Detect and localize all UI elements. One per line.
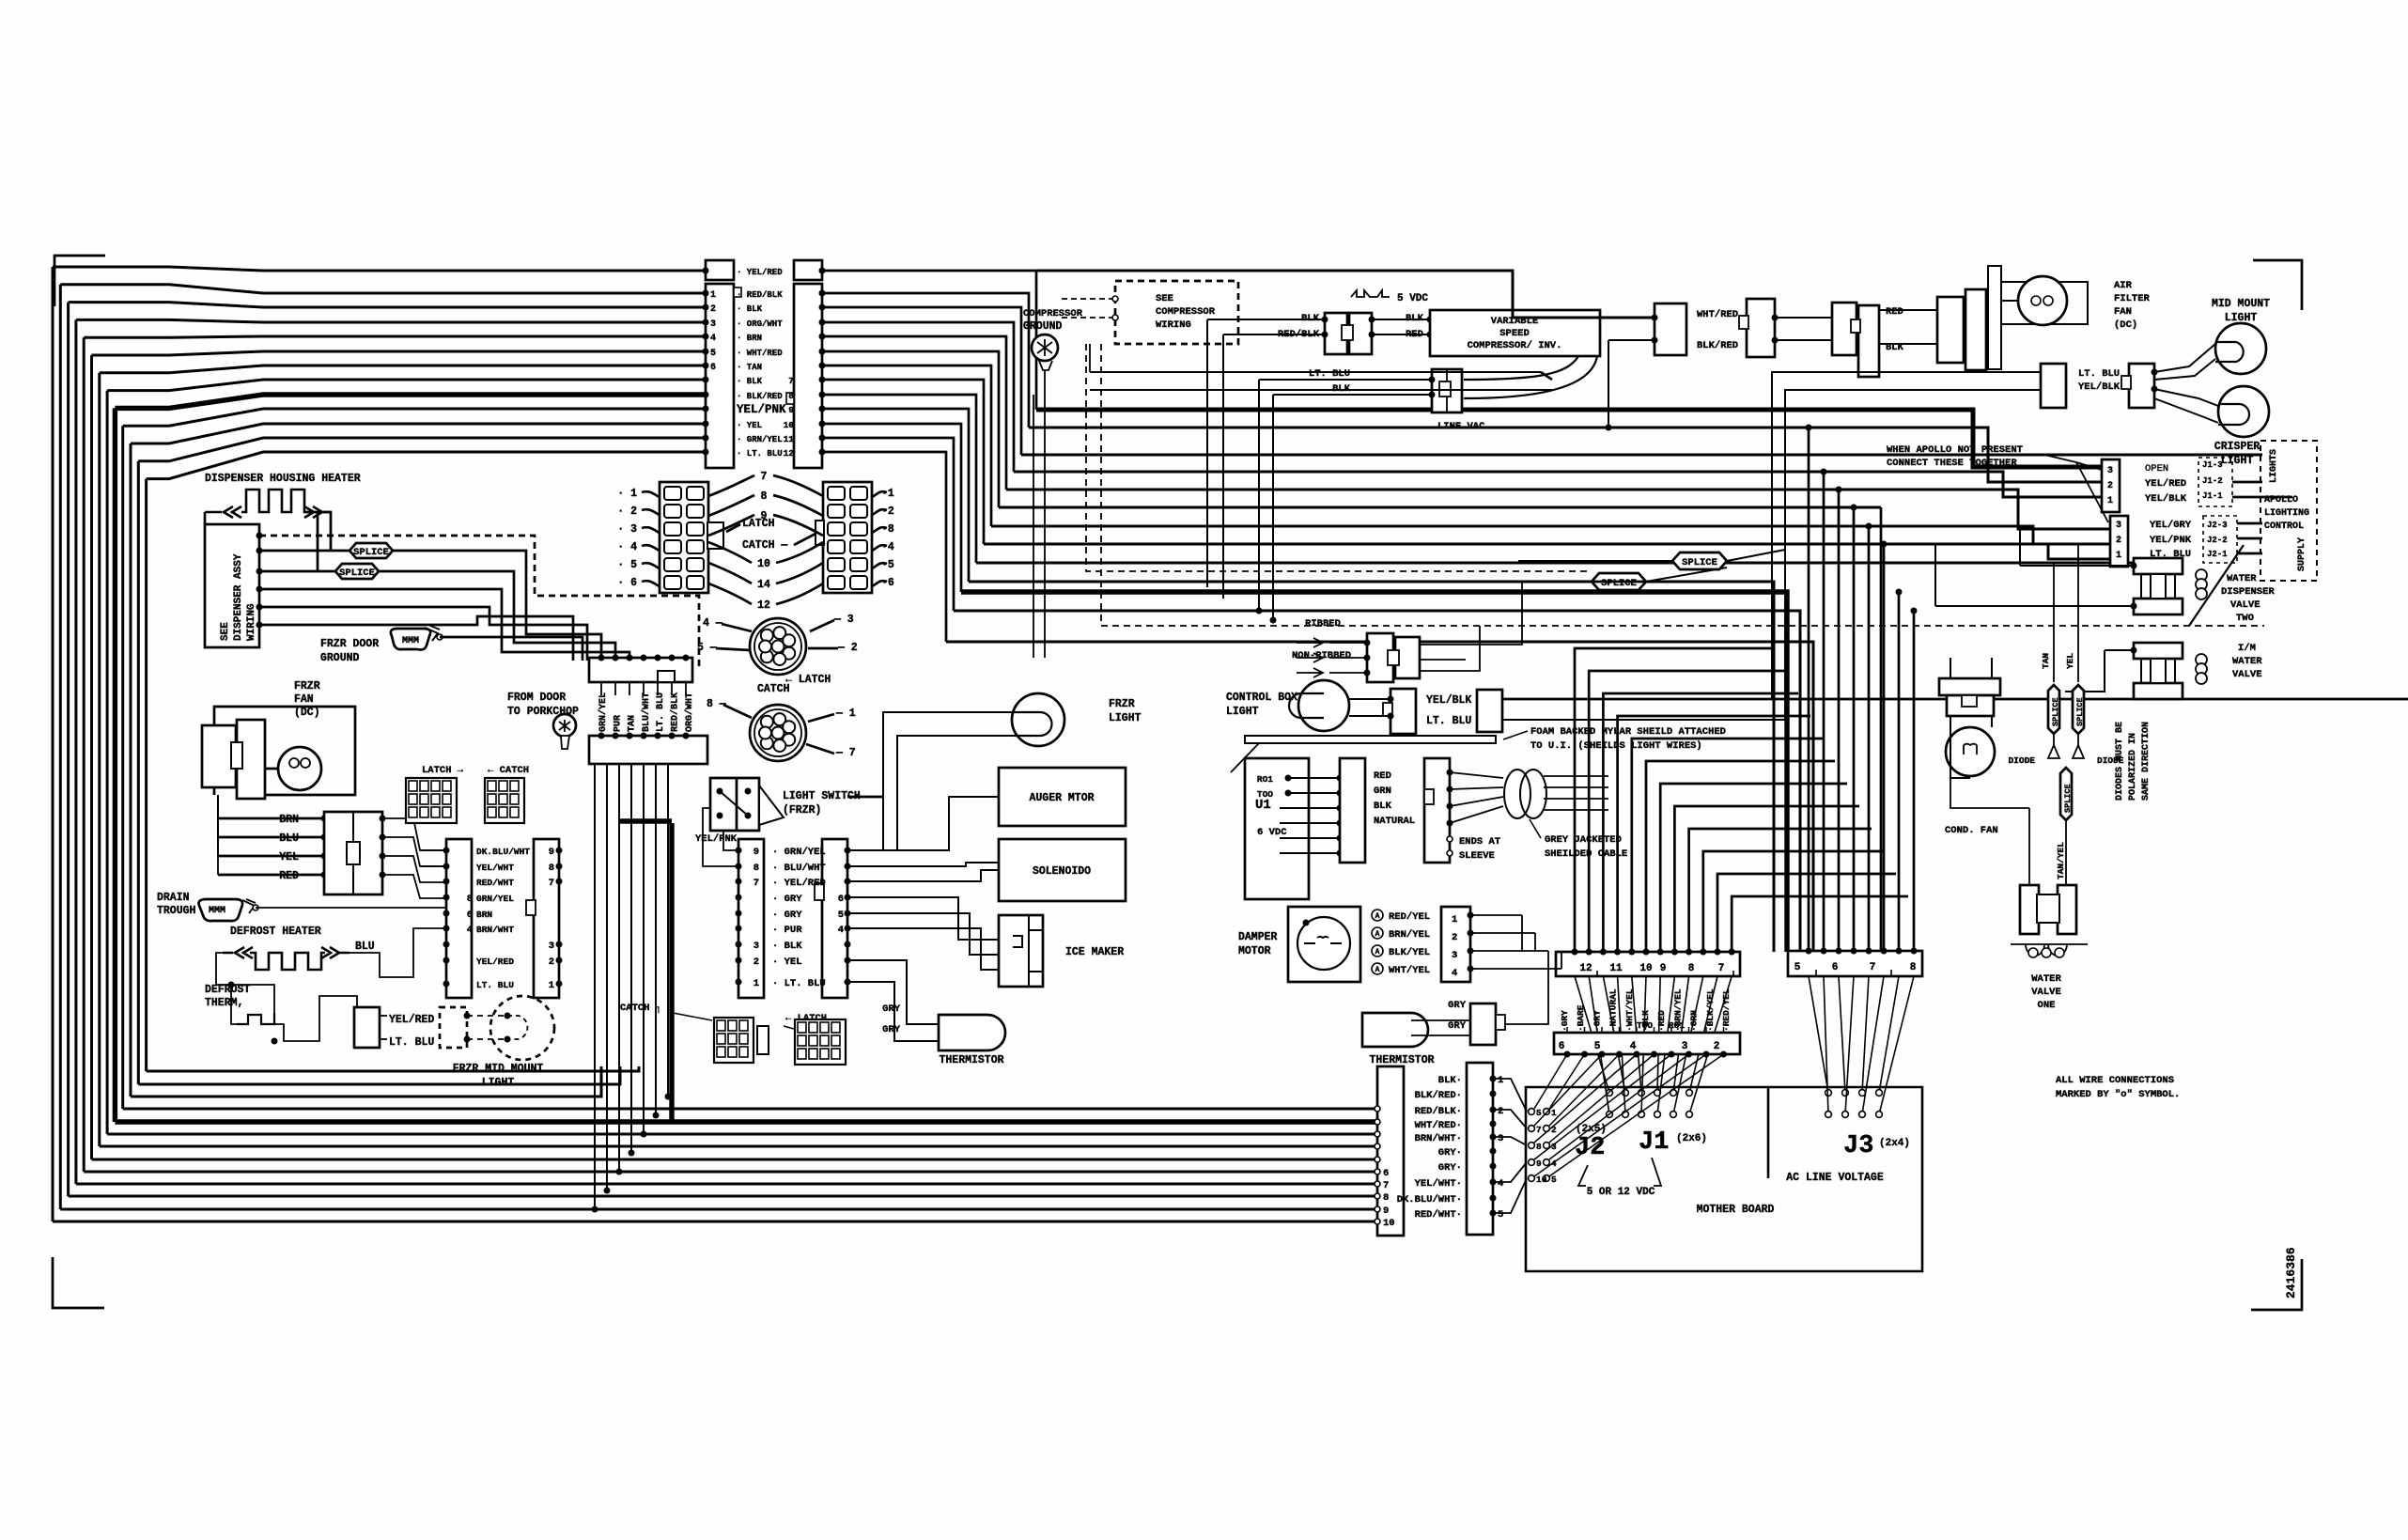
svg-text:GREY JACKETED: GREY JACKETED xyxy=(1545,834,1622,846)
svg-text:2: 2 xyxy=(549,957,554,968)
svg-text:TOO: TOO xyxy=(1637,1020,1653,1031)
foam backed mylar shield bar xyxy=(1245,736,1496,743)
wire branch to J3 pin 6 xyxy=(1883,544,1886,951)
svg-text:·GRN: ·GRN xyxy=(1689,1010,1700,1032)
svg-text:4 —: 4 — xyxy=(703,617,722,630)
connector refrigerator-door header right top box xyxy=(794,260,822,280)
svg-text:·NATURAL: ·NATURAL xyxy=(1608,988,1619,1032)
svg-text:GRY·: GRY· xyxy=(1438,1147,1462,1159)
svg-text:5 OR 12 VDC: 5 OR 12 VDC xyxy=(1587,1187,1655,1198)
svg-text:· YEL: · YEL xyxy=(772,957,802,968)
wire bus row 12 left vertical xyxy=(145,479,148,1071)
svg-text:· GRY: · GRY xyxy=(772,910,802,921)
svg-text:ENDS AT: ENDS AT xyxy=(1459,836,1500,848)
connector freezer fan feed 4-pin xyxy=(324,812,382,894)
svg-text:YEL/PNK: YEL/PNK xyxy=(695,833,738,845)
box APOLLO LIGHTING CONTROL dashed xyxy=(2260,441,2317,581)
svg-text:· 2: · 2 xyxy=(617,506,637,518)
wire fan feed 0 xyxy=(382,818,446,850)
connector bottom bus 10-pin strip xyxy=(1377,1066,1404,1236)
svg-text:RIBBED: RIBBED xyxy=(1305,618,1341,630)
svg-text:· BLK: · BLK xyxy=(772,941,802,952)
connector chain 1 xyxy=(1655,303,1686,355)
connector freezer strip A xyxy=(446,839,472,998)
wire bus row 3 bottom xyxy=(76,1183,1379,1186)
svg-text:YEL/BLK: YEL/BLK xyxy=(1426,694,1471,707)
wire to crisper light 2 xyxy=(2154,398,2218,423)
svg-text:· 1: · 1 xyxy=(617,488,637,500)
svg-text:J1-1: J1-1 xyxy=(2202,491,2223,501)
svg-text:COND. FAN: COND. FAN xyxy=(1945,825,1998,836)
svg-text:·2: ·2 xyxy=(881,506,894,518)
svg-text:10: 10 xyxy=(1383,1218,1395,1229)
wire bus row 0 bottom xyxy=(53,1221,1379,1223)
svg-text:5: 5 xyxy=(710,349,716,359)
svg-text:GRY: GRY xyxy=(882,1003,901,1015)
svg-text:4: 4 xyxy=(1498,1178,1503,1190)
wire dashed to compressor box 1 xyxy=(1062,298,1112,300)
wire heater to splice xyxy=(323,512,331,551)
connector compressor feed B xyxy=(1349,313,1372,354)
wire central bus 6 xyxy=(991,526,2110,544)
svg-text:·4: ·4 xyxy=(881,541,894,553)
svg-text:7: 7 xyxy=(761,471,768,483)
wire BLK to line vac xyxy=(1273,394,1432,396)
svg-text:— 2: — 2 xyxy=(837,642,858,654)
svg-text:BLU: BLU xyxy=(279,832,299,845)
connector chain 5 xyxy=(1937,297,1964,363)
wire staircase row 3 xyxy=(822,322,1014,472)
wire damper 1 xyxy=(1470,914,1522,916)
svg-text:GRN/YEL: GRN/YEL xyxy=(476,894,514,904)
svg-text:FOAM BACKED MYLAR SHEILD ATTAC: FOAM BACKED MYLAR SHEILD ATTACHED xyxy=(1530,726,1726,738)
svg-text:GRN: GRN xyxy=(1374,786,1391,797)
svg-text:· PUR: · PUR xyxy=(772,925,802,936)
svg-text:3: 3 xyxy=(1498,1133,1503,1144)
wire bus row 11 left vertical xyxy=(137,461,140,1084)
lamp crisper light xyxy=(2218,386,2269,437)
latch tab on left block xyxy=(707,522,723,549)
I/M water valve xyxy=(2134,643,2183,659)
svg-text:5: 5 xyxy=(1594,1041,1601,1052)
wire cond fan loop l xyxy=(1950,716,1970,778)
wire to mid mount light 1 xyxy=(2154,344,2215,372)
svg-text:3: 3 xyxy=(2107,466,2113,476)
wire frzr light feed xyxy=(883,712,1014,850)
label A RED/YEL xyxy=(1372,910,1383,921)
box SOLENOIDO xyxy=(999,839,1126,901)
svg-text:8: 8 xyxy=(788,391,794,401)
wire to wdv2 bottom xyxy=(1935,605,2134,607)
splice TAN xyxy=(2048,685,2059,734)
svg-text:· TAN: · TAN xyxy=(737,363,762,372)
leader apollo 2 xyxy=(2076,462,2108,522)
wire defrost therm xyxy=(216,985,237,1024)
connector freezer-door strip lower xyxy=(589,736,707,764)
svg-text:9: 9 xyxy=(788,405,794,415)
wire U1 pin 3 xyxy=(1280,807,1340,809)
svg-text:TWO: TWO xyxy=(2236,613,2254,624)
svg-text:· GRN/YEL: · GRN/YEL xyxy=(772,847,826,858)
connector J3 strip xyxy=(1788,951,1922,976)
wire central bus 1 xyxy=(1029,428,2102,482)
svg-text:A: A xyxy=(1375,930,1380,939)
svg-text:· BLU/WHT: · BLU/WHT xyxy=(772,863,826,874)
svg-text:LT. BLU: LT. BLU xyxy=(656,692,666,732)
wire to solenoid xyxy=(847,863,999,866)
svg-text:MMM: MMM xyxy=(402,636,419,646)
svg-text:FROM DOOR: FROM DOOR xyxy=(507,692,566,704)
connector control box light xyxy=(1390,689,1416,734)
connector grid catch upper-right xyxy=(485,778,524,823)
wire into splice r1 xyxy=(1518,560,1672,562)
svg-text:11: 11 xyxy=(1609,963,1623,974)
svg-text:PUR: PUR xyxy=(613,715,623,732)
svg-text:THERM,: THERM, xyxy=(205,997,243,1009)
box SEE COMPRESSOR WIRING dashed xyxy=(1115,281,1238,344)
wire shielded cable conductor 1 xyxy=(1544,786,1608,788)
svg-text:3: 3 xyxy=(549,941,554,952)
wire to J1 pin 12 xyxy=(1575,648,1774,952)
svg-text:1: 1 xyxy=(2107,496,2113,506)
wire staircase row 6 xyxy=(822,366,991,526)
svg-text:J1-2: J1-2 xyxy=(2202,476,2223,486)
svg-text:DRAIN: DRAIN xyxy=(157,892,190,904)
svg-text:MOTHER BOARD: MOTHER BOARD xyxy=(1697,1204,1775,1216)
connector J2 strip xyxy=(1554,1033,1740,1054)
wire LT BLU riser xyxy=(1258,380,1260,611)
svg-text:6: 6 xyxy=(467,910,473,921)
wire bus row 5 top xyxy=(92,351,706,355)
wire bus row 5 left vertical xyxy=(90,355,93,1159)
svg-text:3: 3 xyxy=(753,941,759,952)
svg-text:J2-1: J2-1 xyxy=(2207,550,2228,559)
svg-text:·BLK/YEL: ·BLK/YEL xyxy=(1705,988,1716,1032)
svg-text:9: 9 xyxy=(549,847,554,858)
wire bus row 11 bottom riser xyxy=(138,1066,620,1084)
svg-text:6: 6 xyxy=(710,363,716,373)
wire to J1 pin 5 xyxy=(1674,806,1859,952)
svg-text:BLK·: BLK· xyxy=(1438,1075,1462,1086)
wire staircase row 2 xyxy=(822,307,1021,455)
svg-text:SPLICE: SPLICE xyxy=(2063,784,2073,813)
wire TAN/YEL down xyxy=(2065,820,2067,885)
wire riser freezer-door 2 xyxy=(618,764,620,1172)
wire compressor ground down xyxy=(1044,370,1046,658)
wire bus row 1 left vertical xyxy=(59,285,62,1209)
lamp FRZR LIGHT xyxy=(1012,693,1064,746)
svg-text:LATCH →: LATCH → xyxy=(422,765,464,776)
svg-text:WATER: WATER xyxy=(2232,656,2262,667)
wire bus row 1 top xyxy=(60,285,705,293)
connector LINE VAC xyxy=(1432,369,1462,412)
svg-text:TOO: TOO xyxy=(1257,789,1273,800)
wire bus row 7 bottom xyxy=(107,1133,1379,1136)
wire U1 pin 4 xyxy=(1280,822,1340,824)
wire 5-pin to J2-4 xyxy=(1493,1162,1527,1182)
svg-text:YEL/WHT·: YEL/WHT· xyxy=(1415,1178,1462,1190)
svg-text:BLU: BLU xyxy=(355,941,375,953)
wire thick riser freezer section xyxy=(669,823,674,1121)
svg-text:1: 1 xyxy=(549,980,554,991)
connector J1 strip xyxy=(1556,952,1740,976)
wire damper 2 xyxy=(1470,932,1535,934)
svg-text:1: 1 xyxy=(710,290,716,301)
svg-text:· WHT/RED: · WHT/RED xyxy=(737,349,783,358)
wire bus row 4 bottom xyxy=(84,1171,1379,1174)
svg-text:SPLICE: SPLICE xyxy=(1682,557,1717,568)
connector grid latch lower-right xyxy=(795,1019,846,1065)
svg-text:7: 7 xyxy=(1536,1125,1542,1135)
wire bus row 2 top xyxy=(69,303,705,307)
svg-text:CATCH —: CATCH — xyxy=(742,539,787,552)
svg-text:3: 3 xyxy=(1682,1041,1688,1052)
svg-text:· LT. BLU: · LT. BLU xyxy=(772,978,826,989)
ice maker connector xyxy=(999,915,1043,987)
wire fan feed 3 xyxy=(382,875,446,898)
svg-text:POLARIZED IN: POLARIZED IN xyxy=(2128,733,2138,801)
wire bus row 6 left vertical xyxy=(98,373,101,1146)
wire central bus 7 xyxy=(984,544,2110,559)
svg-text:WHT/RED·: WHT/RED· xyxy=(1415,1120,1462,1131)
wire RED/BLK to connector xyxy=(1223,334,1325,335)
connector grid catch lower-left xyxy=(714,1018,753,1063)
svg-text:1: 1 xyxy=(1452,914,1457,926)
wire staircase row 11 xyxy=(822,438,954,611)
wire to ice maker 3 xyxy=(847,928,999,970)
svg-text:I/M: I/M xyxy=(2238,643,2256,654)
wire central bus 9 xyxy=(969,582,1774,952)
svg-text:COMPRESSOR: COMPRESSOR xyxy=(1156,306,1216,318)
svg-text:DIODE: DIODE xyxy=(2008,755,2035,766)
label A BRN/YEL xyxy=(1372,927,1383,939)
wire chain RED xyxy=(1775,317,1834,319)
svg-text:BRN: BRN xyxy=(476,910,492,920)
wire dispenser row 5 xyxy=(259,616,573,661)
wire ribbed to splice xyxy=(1466,582,1522,645)
svg-text:7: 7 xyxy=(1383,1180,1389,1191)
svg-text:SAME DIRECTION: SAME DIRECTION xyxy=(2141,722,2152,801)
wire RED xyxy=(218,874,324,877)
svg-text:2: 2 xyxy=(1714,1041,1720,1052)
svg-text:12: 12 xyxy=(784,448,795,459)
svg-text:— 7: — 7 xyxy=(835,747,856,759)
connector control box light 2 xyxy=(1477,690,1502,732)
svg-text:YEL: YEL xyxy=(279,851,299,863)
svg-text:· ORG/WHT: · ORG/WHT xyxy=(737,319,783,329)
svg-text:U1: U1 xyxy=(1255,798,1271,813)
svg-text:· 4: · 4 xyxy=(617,541,637,553)
svg-text:2: 2 xyxy=(2107,481,2113,491)
svg-text:LIGHT: LIGHT xyxy=(1109,712,1142,724)
svg-text:· GRN/YEL: · GRN/YEL xyxy=(737,435,783,444)
wire riser freezer-door 1 xyxy=(606,764,608,1190)
svg-text:RED/WHT: RED/WHT xyxy=(476,878,514,888)
connector round 8-pin lower xyxy=(750,705,806,761)
wire ribbed out 0 xyxy=(1420,644,1466,646)
wire BLU xyxy=(218,836,324,839)
svg-text:← LATCH: ← LATCH xyxy=(785,674,831,686)
wire lt.blu run right xyxy=(1502,719,1785,721)
svg-text:· LT. BLU: · LT. BLU xyxy=(737,449,783,459)
svg-text:GRY·: GRY· xyxy=(1438,1162,1462,1174)
svg-text:YEL/BLK: YEL/BLK xyxy=(2145,493,2187,505)
corner mark top-left xyxy=(54,256,105,306)
svg-text:(2x4): (2x4) xyxy=(1879,1138,1910,1149)
wire to J1 pin 2 xyxy=(1717,874,1896,952)
wire 5-pin to J2-3 xyxy=(1493,1137,1527,1145)
svg-text:3: 3 xyxy=(2116,521,2121,531)
svg-text:WHEN APOLLO NOT PRESENT: WHEN APOLLO NOT PRESENT xyxy=(1887,444,2023,456)
mother board outline xyxy=(1526,1087,1922,1271)
svg-text:MID MOUNT: MID MOUNT xyxy=(2212,298,2270,310)
defrost thermostat symbol xyxy=(237,1013,274,1024)
svg-text:2: 2 xyxy=(753,957,759,968)
svg-text:YEL/PNK: YEL/PNK xyxy=(737,403,786,416)
wire to ice maker 1 xyxy=(847,897,999,940)
wire heater to splice 2 xyxy=(306,512,318,571)
svg-text:TAN: TAN xyxy=(2041,653,2051,669)
wire bus row 12 top xyxy=(147,452,705,479)
svg-text:DK.BLU/WHT·: DK.BLU/WHT· xyxy=(1397,1194,1462,1206)
wire BLK to inverter xyxy=(1372,319,1430,320)
wire inverter to line vac 1 xyxy=(1464,356,1578,380)
svg-text:LT. BLU: LT. BLU xyxy=(1426,715,1471,727)
svg-text:(2x6): (2x6) xyxy=(1676,1133,1707,1144)
svg-text:WIRING: WIRING xyxy=(1156,319,1191,331)
connector chain 2 xyxy=(1747,299,1775,357)
wire bus row 4 left vertical xyxy=(83,337,85,1172)
svg-text:· 6: · 6 xyxy=(617,577,637,589)
svg-text:VALVE: VALVE xyxy=(2232,669,2262,680)
svg-text:WHT/RED: WHT/RED xyxy=(1697,309,1738,320)
wire central bus 5 xyxy=(999,506,1881,509)
connector 12-pin block right xyxy=(823,482,872,593)
svg-text:·GRY: ·GRY xyxy=(1592,1010,1602,1032)
wire branch to J3 pin 7 xyxy=(1898,592,1901,951)
wire cable fan 1 xyxy=(1450,787,1503,789)
svg-text:GROUND: GROUND xyxy=(1023,320,1063,333)
svg-text:MMM: MMM xyxy=(209,906,225,916)
wire to mid mount light 2 xyxy=(2154,359,2215,380)
connector grid latch upper-left xyxy=(406,778,457,823)
wire light to connector 2 xyxy=(1349,715,1390,717)
connector mid strip B xyxy=(822,839,847,998)
box damper motor xyxy=(1288,907,1360,982)
wire to thermistor grey 2 xyxy=(847,982,939,1041)
connector U1 header xyxy=(1340,758,1365,863)
box SEE DISPENSER ASSY WIRING xyxy=(205,524,259,647)
svg-text:7: 7 xyxy=(549,878,554,889)
wire dashed compressor down 1 xyxy=(1086,344,1592,571)
connector freezer-door strip upper xyxy=(589,658,692,682)
svg-text:8: 8 xyxy=(1910,962,1917,973)
wire to J1 pin 4 xyxy=(1689,829,1872,952)
svg-text:5: 5 xyxy=(838,910,844,921)
svg-text:· BLK/RED: · BLK/RED xyxy=(737,392,783,401)
wire dashed dispenser to freezer connector xyxy=(259,536,699,667)
wire damper 3 xyxy=(1470,950,1548,952)
svg-text:RED/WHT·: RED/WHT· xyxy=(1415,1209,1462,1221)
ice maker inner xyxy=(1013,915,1043,987)
wire fan feed 1 xyxy=(382,837,446,866)
svg-text:GRY: GRY xyxy=(1448,1000,1467,1011)
svg-text:VALVE: VALVE xyxy=(2230,599,2260,611)
wire light to connector 1 xyxy=(1349,698,1390,700)
svg-text:← CATCH: ← CATCH xyxy=(488,765,529,776)
svg-text:COMPRESSOR/ INV.: COMPRESSOR/ INV. xyxy=(1468,340,1562,351)
wire U1 pin 5 xyxy=(1280,837,1340,839)
connector chain socket xyxy=(1988,266,2001,369)
wire therm to yel/red connector xyxy=(274,996,357,1041)
svg-text:J1: J1 xyxy=(1639,1128,1669,1157)
svg-text:BLK: BLK xyxy=(1374,801,1392,812)
svg-text:CRISPER: CRISPER xyxy=(2214,441,2260,453)
svg-text:10: 10 xyxy=(757,558,770,570)
wire bus row 8 left vertical xyxy=(113,408,117,1122)
svg-text:(DC): (DC) xyxy=(294,707,320,719)
svg-text:BRN/WHT·: BRN/WHT· xyxy=(1415,1133,1462,1144)
wire to J1 pin 9 xyxy=(1618,716,1810,952)
wire chain BLK xyxy=(1775,339,1834,341)
svg-text:GRY: GRY xyxy=(1448,1020,1467,1032)
svg-text:8: 8 xyxy=(761,490,768,503)
svg-text:SPLICE: SPLICE xyxy=(2051,697,2060,726)
wire bus row 11 top xyxy=(138,438,705,461)
wire riser freezer-door 5 xyxy=(655,764,657,1115)
svg-text:· GRY: · GRY xyxy=(772,894,802,905)
wire LT BLU to line vac xyxy=(1259,379,1432,381)
wire ribbed out 1 xyxy=(1420,659,1466,661)
wire ribbed 1 xyxy=(1297,653,1367,662)
wire shielded cable conductor 2 xyxy=(1544,798,1608,800)
wire staircase row 12 xyxy=(822,452,946,642)
connector damper 4-pin xyxy=(1441,907,1470,982)
lamp mid mount light xyxy=(2215,323,2266,374)
svg-text:FRZR: FRZR xyxy=(294,680,320,692)
light switch flag xyxy=(759,786,784,825)
svg-text:·RED: ·RED xyxy=(1656,1010,1667,1032)
svg-text:AUGER MTOR: AUGER MTOR xyxy=(1029,792,1094,804)
wire staircase row 1 xyxy=(822,293,1029,428)
svg-text:· 5: · 5 xyxy=(617,559,637,571)
wire staircase row 7 xyxy=(822,380,984,544)
svg-text:SHEILDED CABLE: SHEILDED CABLE xyxy=(1545,848,1627,860)
wire to J1 pin 7 xyxy=(1646,761,1835,952)
wire shielded cable conductor 0 xyxy=(1544,775,1608,777)
wire bus row 9 left vertical xyxy=(121,426,124,1109)
svg-text:LT. BLU: LT. BLU xyxy=(1309,368,1350,380)
box AUGER MTOR xyxy=(999,768,1126,826)
svg-text:WATER: WATER xyxy=(2227,573,2257,584)
wire central bus 12 xyxy=(946,642,1813,952)
svg-text:11: 11 xyxy=(784,434,795,444)
connector compressor feed A xyxy=(1325,313,1347,354)
svg-text:SPEED: SPEED xyxy=(1499,328,1530,339)
svg-text:LT. BLU: LT. BLU xyxy=(389,1036,434,1049)
lamp cond fan xyxy=(1946,727,1995,776)
svg-text:YEL/RED: YEL/RED xyxy=(389,1014,434,1026)
leader apollo 1 xyxy=(2044,455,2102,470)
svg-text:CONTROL: CONTROL xyxy=(2264,521,2304,532)
svg-text:5: 5 xyxy=(1794,962,1801,973)
wire central bus 11 xyxy=(954,611,1800,952)
svg-text:· BLK: · BLK xyxy=(737,304,763,314)
splice YEL xyxy=(2073,685,2084,734)
wire defrost heater to strip xyxy=(350,928,446,977)
svg-text:BLK/RED: BLK/RED xyxy=(1697,340,1738,351)
splice dispenser 2 xyxy=(335,564,379,579)
